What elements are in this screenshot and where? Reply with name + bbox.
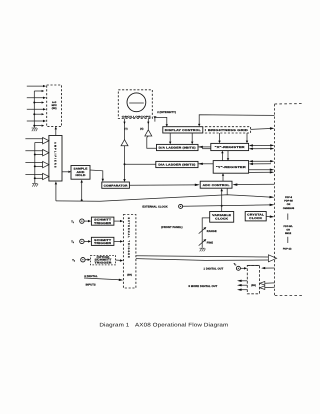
wire brightness to X register (a): [218, 133, 220, 143]
wire amp return stub 3: [35, 165, 43, 167]
connector T2: [71, 239, 84, 244]
buffer amp A2d: [43, 173, 49, 179]
wire digital out to relay box: [241, 267, 248, 269]
wire display control to D/A ladder 1 (b): [191, 133, 193, 144]
wire Y amp to comparator: [123, 146, 125, 182]
svg-text:OMNIBUS: OMNIBUS: [283, 207, 295, 210]
junction sample-hold clock: [81, 199, 83, 201]
schmitt trigger 1: [91, 217, 114, 225]
junction lower bus 1: [34, 154, 36, 156]
svg-text:PDP-12: PDP-12: [283, 248, 292, 251]
wire return stub 1: [34, 90, 44, 92]
wire Y register to ADC control: [222, 173, 224, 181]
divider 2: [287, 237, 289, 243]
amplifier bank U1 (box with vertical label): [49, 136, 62, 182]
potentiometer FINE: [199, 239, 207, 246]
ground lower: [32, 183, 38, 186]
wire amps to multiplexer: [55, 127, 57, 136]
svg-text:RANGE: RANGE: [207, 230, 217, 233]
svg-text:T2: T2: [71, 241, 74, 245]
wire amp box bottom to clock line: [55, 181, 57, 201]
label 6 DIGITAL INPUTS: [84, 275, 98, 286]
svg-text:(Y): (Y): [124, 127, 127, 130]
connector digital out J2: [236, 266, 240, 270]
wire ground bus upper: [33, 91, 35, 128]
svg-text:TRIGGER: TRIGGER: [94, 222, 111, 225]
svg-text:COMPARATOR: COMPARATOR: [104, 184, 128, 187]
wire schmitt 2 to trigger logic: [114, 240, 123, 242]
svg-text:D/A LADDER (9BITS): D/A LADDER (9BITS): [159, 147, 196, 150]
wire crystal clock to interface: [266, 215, 274, 218]
wire interface to relay box top: [261, 267, 274, 269]
svg-text:8M12: 8M12: [285, 232, 292, 235]
wire intensity to display control: [154, 116, 168, 127]
brightness grid (dashed box): [205, 127, 250, 133]
X register U5: [211, 143, 249, 150]
wire interface to relay box (open arrow b): [260, 286, 275, 290]
wire Y register to D/A ladder 2: [198, 163, 213, 165]
svg-text:CLOCK: CLOCK: [249, 217, 262, 220]
label PDP-8 family: [283, 196, 295, 210]
junction upper bus 2: [33, 113, 35, 115]
wire Y ladder tap to D/A ladder 2: [125, 163, 156, 165]
wire analog input 1: [27, 85, 46, 87]
svg-text:EXTERNAL CLOCK: EXTERNAL CLOCK: [142, 206, 167, 209]
svg-text:(3R): (3R): [251, 284, 256, 287]
junction upper bus 1: [33, 102, 35, 104]
external trigger logic (dashed tall box): [123, 215, 135, 289]
wire X amp to D/A ladder 1: [147, 136, 157, 148]
svg-text:6 DIGITAL: 6 DIGITAL: [84, 275, 98, 278]
wire X register to D/A ladder 1: [198, 146, 211, 149]
wire interface to ADC control: [232, 183, 274, 186]
svg-text:2 (INTENSITY): 2 (INTENSITY): [157, 111, 176, 114]
wire relay outputs 1: [237, 280, 247, 282]
svg-text:1 DIGITAL OUT: 1 DIGITAL OUT: [204, 267, 224, 270]
wire X register to Y register (b): [227, 151, 229, 161]
D/A ladder 1 (9 bits): [157, 144, 199, 150]
wire display control to D/A ladder 1 (a): [169, 133, 171, 144]
wire sample-hold bottom to clock line: [81, 180, 83, 201]
Y amplifier A3: [121, 140, 128, 146]
wire amp input 3: [25, 162, 42, 164]
junction lower bus 2: [34, 165, 36, 167]
wire Y register to interface pair 2: [249, 169, 275, 174]
wire variable clock to pots and ground: [202, 218, 210, 248]
wire analog input 3: [27, 108, 46, 110]
wire brightness grid to interface: [251, 127, 275, 130]
svg-text:OSCILLOSCOPE: OSCILLOSCOPE: [122, 115, 152, 118]
D/A ladder 2 (9 bits): [156, 161, 198, 167]
schmitt trigger 2: [91, 237, 114, 245]
svg-text:HOLD: HOLD: [76, 174, 86, 177]
wire ground bus lower: [34, 143, 36, 184]
potentiometer RANGE: [199, 227, 207, 234]
svg-text:EXTERNAL TRIGGER: EXTERNAL TRIGGER: [127, 218, 130, 259]
svg-text:Diagram 1 AX08 Operational F: Diagram 1 AX08 Operational Flow Diagram: [99, 323, 229, 329]
connector T1: [71, 219, 84, 224]
junction Y ladder tap: [124, 163, 126, 165]
wire oscilloscope X lead: [147, 119, 149, 130]
svg-text:CLOCK: CLOCK: [215, 217, 228, 220]
oscilloscope (dashed CRT box): [118, 90, 152, 119]
wire external clock to interface: [183, 204, 275, 207]
ground variable clock: [200, 248, 206, 251]
wire T2 to schmitt trigger 2: [84, 240, 91, 242]
svg-text:OR: OR: [287, 203, 291, 206]
variable clock U8: [210, 212, 234, 223]
wire return stub 4: [34, 125, 44, 127]
svg-text:(X): (X): [140, 127, 143, 130]
schmitt trigger 3 (optional, dashed): [91, 256, 116, 265]
svg-text:PDP-8: PDP-8: [285, 196, 293, 199]
ADC control U7: [200, 181, 232, 188]
svg-text:PDP-8/I: PDP-8/I: [284, 199, 293, 202]
svg-text:(3R): (3R): [52, 107, 57, 110]
interface dashed enclosure (computer side): [275, 104, 304, 296]
wire trigger bus upper (long): [136, 256, 268, 257]
svg-text:OR: OR: [286, 228, 290, 231]
relay output box (3R): [247, 265, 259, 293]
wire amp input 1: [25, 138, 42, 140]
wire amp return stub 1: [35, 142, 43, 144]
buffer amp A2c: [43, 161, 49, 167]
wire analog input 2: [27, 97, 46, 99]
wire X register to interface pair: [249, 144, 274, 150]
crystal clock U9: [245, 212, 266, 221]
wire X register to Y register (a): [221, 151, 223, 161]
wire comparator to ADC control: [129, 184, 199, 187]
junction ADC variable clock with external clock line: [221, 205, 223, 207]
svg-text:D/A LADDER (9BITS): D/A LADDER (9BITS): [158, 164, 195, 167]
wire Y register to interface pair 1: [249, 160, 274, 165]
connector T3: [72, 258, 85, 263]
wire amps to sample-and-hold: [62, 171, 71, 173]
wire analog input 4: [27, 120, 46, 122]
buffer amp A2a: [43, 138, 49, 144]
wire schmitt 1 to trigger logic: [114, 220, 123, 222]
wire ADC control to variable clock: [221, 188, 223, 211]
wire trigger bus lower (long): [136, 259, 268, 261]
svg-text:AMPLIFIERS: AMPLIFIERS: [54, 142, 57, 169]
wire amp input 4: [25, 174, 42, 176]
buffer amp A2b: [43, 150, 49, 156]
wire schmitt 3 to trigger logic: [116, 259, 124, 261]
wire sample clock line (long): [56, 195, 275, 202]
wire interface to relay box (open arrow a): [260, 281, 275, 285]
svg-text:MPX: MPX: [52, 104, 58, 107]
wire relay outputs 3: [237, 289, 247, 291]
wire T3 to schmitt trigger 3: [85, 259, 90, 261]
svg-text:(3R): (3R): [127, 274, 132, 277]
bus arrow into interface (open): [268, 255, 276, 262]
wire ADC control branch to sample clock line: [226, 188, 228, 195]
external clock connector J1: [179, 204, 183, 208]
junction upper bus 3: [33, 125, 35, 127]
divider 1: [287, 214, 289, 220]
wire amp input 2: [25, 150, 42, 152]
svg-text:TRIGGER: TRIGGER: [95, 262, 112, 265]
svg-text:(FRONT PANEL): (FRONT PANEL): [161, 226, 182, 229]
wire sample-hold to comparator: [90, 170, 104, 182]
svg-text:BRIGHTNESS GRID: BRIGHTNESS GRID: [208, 129, 248, 132]
svg-text:A-D: A-D: [52, 101, 57, 104]
wire T1 to schmitt trigger 1: [84, 220, 91, 222]
wire oscilloscope Y lead: [123, 119, 125, 140]
svg-text:INPUTS: INPUTS: [86, 284, 96, 287]
wire interface to display control top: [198, 115, 274, 127]
svg-text:TRIGGER: TRIGGER: [94, 242, 111, 245]
svg-text:PDP-8/L: PDP-8/L: [284, 225, 294, 228]
wire amp return stub 4: [35, 177, 43, 179]
svg-text:5 MORE DIGITAL OUT: 5 MORE DIGITAL OUT: [189, 285, 218, 288]
wire brightness to X register (b): [246, 133, 248, 143]
junction lower bus 3: [34, 177, 36, 179]
svg-text:"Y"-REGISTER: "Y"-REGISTER: [216, 166, 246, 169]
Y register U6: [213, 161, 248, 174]
svg-text:T1: T1: [71, 220, 74, 224]
svg-text:FINE: FINE: [207, 242, 213, 245]
X amplifier A4: [145, 130, 152, 136]
multiplexer A1 (A/D MPX dashed box): [47, 85, 62, 127]
svg-text:DISPLAY CONTROL: DISPLAY CONTROL: [165, 129, 201, 132]
svg-text:T3: T3: [72, 259, 75, 263]
display control U4: [163, 127, 203, 133]
sample and hold U2: [71, 166, 90, 180]
wire return stub 2: [34, 101, 44, 103]
wire 6 digital inputs: [84, 278, 123, 281]
svg-text:"X"-REGISTER: "X"-REGISTER: [215, 146, 245, 149]
comparator U3: [102, 182, 130, 188]
wire amp return stub 2: [35, 154, 43, 156]
wire relay outputs 2: [237, 284, 247, 286]
svg-text:ADC CONTROL: ADC CONTROL: [203, 184, 230, 187]
label PDP-8/L group: [284, 225, 294, 235]
ground upper: [32, 128, 38, 131]
wire return stub 3: [34, 113, 44, 115]
svg-text:T0: T0: [234, 263, 237, 267]
